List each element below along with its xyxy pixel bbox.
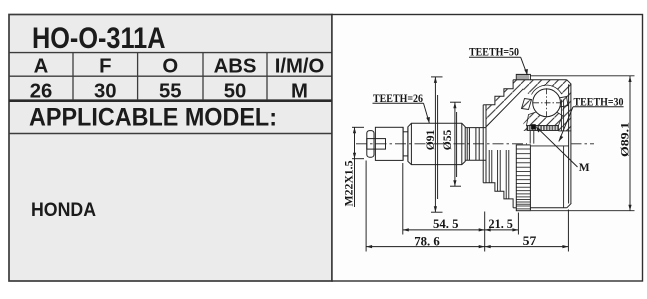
svg-text:55: 55 (159, 81, 182, 103)
svg-text:O: O (162, 56, 178, 78)
svg-text:ABS: ABS (214, 56, 257, 78)
svg-text:TEETH=50: TEETH=50 (469, 47, 519, 59)
svg-text:Ø91: Ø91 (425, 130, 437, 151)
svg-text:M: M (579, 162, 590, 174)
svg-text:HONDA: HONDA (31, 200, 96, 221)
svg-text:50: 50 (224, 81, 247, 103)
svg-text:54. 5: 54. 5 (433, 216, 459, 231)
svg-text:Ø89.1: Ø89.1 (620, 122, 632, 157)
svg-text:TEETH=26: TEETH=26 (373, 93, 423, 105)
svg-text:78. 6: 78. 6 (414, 234, 440, 249)
svg-text:M22X1.5: M22X1.5 (344, 160, 356, 206)
svg-text:F: F (99, 56, 111, 78)
svg-text:A: A (34, 56, 49, 78)
svg-text:TEETH=30: TEETH=30 (574, 96, 624, 108)
svg-text:30: 30 (94, 81, 117, 103)
svg-text:M: M (291, 81, 308, 103)
svg-text:Ø55: Ø55 (442, 130, 454, 151)
svg-text:I/M/O: I/M/O (275, 56, 325, 78)
svg-text:HO-O-311A: HO-O-311A (32, 22, 166, 55)
svg-text:57: 57 (523, 233, 537, 248)
svg-text:26: 26 (30, 81, 53, 103)
svg-text:21. 5: 21. 5 (489, 216, 514, 231)
svg-text:APPLICABLE MODEL:: APPLICABLE MODEL: (29, 104, 277, 132)
